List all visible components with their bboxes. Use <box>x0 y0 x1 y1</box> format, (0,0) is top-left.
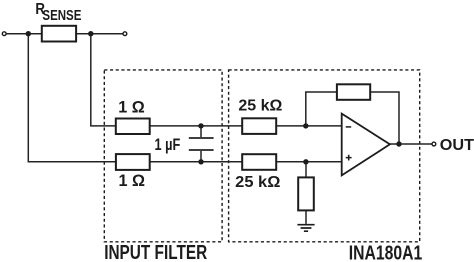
svg-text:1 Ω: 1 Ω <box>119 172 146 190</box>
svg-text:OUT: OUT <box>440 137 474 154</box>
svg-text:25 kΩ: 25 kΩ <box>235 174 280 191</box>
svg-text:SENSE: SENSE <box>42 7 81 24</box>
svg-text:1 µF: 1 µF <box>155 136 181 154</box>
svg-text:INA180A1: INA180A1 <box>349 241 423 262</box>
svg-text:1 Ω: 1 Ω <box>118 98 145 116</box>
svg-text:25 kΩ: 25 kΩ <box>238 97 282 114</box>
svg-text:INPUT FILTER: INPUT FILTER <box>104 241 207 262</box>
